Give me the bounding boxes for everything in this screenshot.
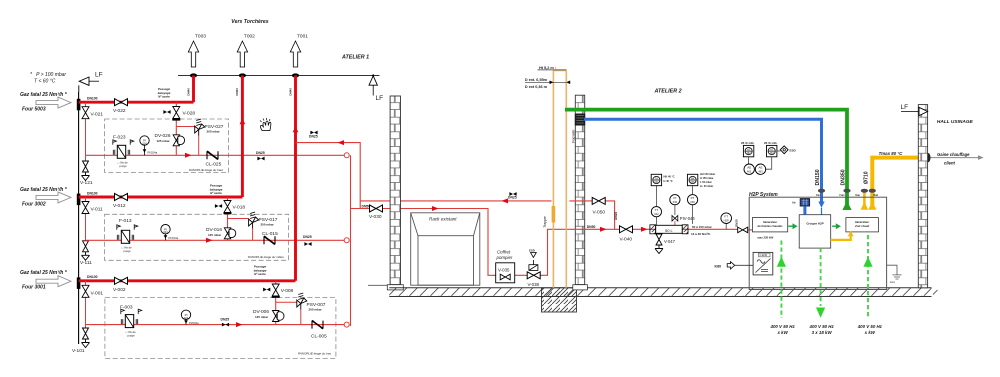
valve V-018 bbox=[224, 201, 231, 213]
svg-text:PANOPLIE étage du milieu: PANOPLIE étage du milieu bbox=[248, 255, 284, 259]
svg-text:T003: T003 bbox=[195, 34, 206, 40]
svg-text:Eau: Eau bbox=[856, 194, 861, 197]
svg-text:463: 463 bbox=[770, 152, 775, 155]
svg-text:PI/024a: PI/024a bbox=[148, 151, 158, 155]
yellow hot air pipe bbox=[872, 158, 926, 206]
svg-text:Four 3002: Four 3002 bbox=[22, 202, 46, 208]
svg-text:client: client bbox=[944, 161, 956, 166]
svg-text:TA: TA bbox=[655, 176, 658, 180]
panoply box etage du milieu bbox=[105, 214, 289, 260]
wire PSV branch row3 bbox=[276, 302, 301, 324]
svg-text:Four 5003: Four 5003 bbox=[22, 107, 46, 113]
svg-text:AE: AE bbox=[758, 166, 762, 170]
power line gen air chaud bbox=[867, 235, 869, 318]
svg-text:400 V 50 Hz: 400 V 50 Hz bbox=[857, 324, 883, 329]
instrument square TAH-041 bbox=[651, 174, 661, 185]
valve V-008 bbox=[272, 284, 279, 296]
svg-text:purge: purge bbox=[120, 164, 128, 168]
svg-text:ESD: ESD bbox=[790, 149, 797, 153]
blue pipe DN150 bbox=[584, 119, 822, 201]
svg-text:V-021: V-021 bbox=[91, 112, 104, 118]
arrow gen to groupe bbox=[788, 225, 793, 227]
gauge PI-024 bbox=[140, 136, 149, 146]
earth connection bbox=[887, 265, 897, 275]
instrument square PAH-046 bbox=[687, 174, 697, 185]
svg-text:Tmax 80 °C: Tmax 80 °C bbox=[879, 151, 904, 156]
relief valve PSV-007 bbox=[297, 293, 307, 310]
generateur air chaud box bbox=[846, 218, 879, 232]
wall damper block bbox=[575, 114, 585, 126]
svg-text:ESD: ESD bbox=[529, 249, 535, 253]
svg-text:Gaz fatal 25 Nm³/h *: Gaz fatal 25 Nm³/h * bbox=[20, 270, 68, 276]
svg-text:462: 462 bbox=[747, 169, 752, 173]
svg-text:V-001: V-001 bbox=[91, 290, 104, 296]
wall crossing tick row 01 bbox=[77, 277, 81, 289]
svg-text:LF: LF bbox=[95, 72, 103, 79]
power line gen fumees bbox=[780, 241, 782, 319]
svg-text:N² azote: N² azote bbox=[210, 191, 222, 195]
svg-text:x kW: x kW bbox=[776, 330, 788, 335]
panoply box etage du bas bbox=[105, 298, 336, 359]
svg-text:Air: Air bbox=[792, 201, 796, 205]
svg-text:400 V 50 Hz: 400 V 50 Hz bbox=[770, 324, 796, 329]
riser junction tick T002 bbox=[239, 73, 246, 77]
wall column hall usinage bbox=[918, 105, 927, 288]
svg-text:V-002: V-002 bbox=[113, 287, 126, 293]
generateur fumees box bbox=[752, 218, 787, 232]
gauge PI-014 bbox=[161, 225, 170, 235]
facade outline orange bbox=[553, 71, 566, 288]
svg-text:DN25: DN25 bbox=[614, 212, 618, 220]
valve debit H2P inlet bbox=[738, 227, 748, 233]
branch stub + valve V-021 bbox=[85, 102, 87, 166]
riser pipe to T001 bbox=[294, 76, 297, 281]
panoply box etage du haut bbox=[105, 119, 229, 173]
valve V-030 bbox=[370, 205, 383, 212]
relief valve PSV-017 bbox=[249, 212, 259, 229]
arrow groupe to gen air bbox=[832, 225, 836, 227]
svg-text:125 mbar: 125 mbar bbox=[208, 233, 222, 237]
svg-text:CL-015: CL-015 bbox=[262, 231, 278, 237]
valve V-050 bbox=[592, 197, 605, 204]
svg-text:Trappe: Trappe bbox=[543, 216, 547, 228]
svg-text:DN40: DN40 bbox=[235, 88, 239, 96]
svg-text:13 à 36 Nm³/h: 13 à 36 Nm³/h bbox=[691, 232, 711, 236]
svg-text:pompier: pompier bbox=[496, 255, 513, 260]
svg-text:DN40: DN40 bbox=[186, 88, 190, 96]
svg-text:DN25: DN25 bbox=[221, 318, 230, 322]
svg-text:DN25: DN25 bbox=[256, 151, 265, 155]
svg-text:V-040: V-040 bbox=[620, 237, 633, 243]
svg-text:200 mbar: 200 mbar bbox=[309, 308, 323, 312]
svg-text:DN100: DN100 bbox=[87, 97, 98, 101]
svg-text:Générateur: Générateur bbox=[763, 220, 778, 224]
svg-text:N² azote: N² azote bbox=[158, 95, 170, 99]
atelier1 floor line bbox=[368, 284, 390, 286]
svg-text:PANOPLIE étage du bas: PANOPLIE étage du bas bbox=[298, 352, 331, 356]
wire DV branch row1 bbox=[175, 102, 177, 155]
svg-text:046: 046 bbox=[691, 181, 696, 184]
svg-text:Rad: Rad bbox=[874, 194, 879, 197]
wire DV branch row3 bbox=[275, 281, 277, 325]
svg-text:ATELIER 1: ATELIER 1 bbox=[341, 55, 369, 61]
svg-text:PA: PA bbox=[691, 176, 695, 180]
H2P system box bbox=[749, 197, 886, 289]
svg-text:PANOPLIE étage du haut: PANOPLIE étage du haut bbox=[189, 168, 223, 172]
svg-text:041: 041 bbox=[654, 181, 659, 184]
svg-text:DN100: DN100 bbox=[87, 191, 98, 195]
svg-text:V-101: V-101 bbox=[72, 348, 85, 354]
main header pipe Four 5003 bbox=[79, 101, 194, 104]
gauge PI-004 bbox=[181, 310, 190, 320]
riser pipe to T003 bbox=[192, 76, 195, 103]
ESD diamond bbox=[777, 150, 781, 152]
node junction row3 bbox=[344, 322, 349, 327]
svg-text:F-023: F-023 bbox=[113, 135, 126, 141]
svg-text:max 250 kW: max 250 kW bbox=[757, 236, 773, 240]
wire PSV branch row2 bbox=[228, 219, 253, 241]
svg-text:DN350: DN350 bbox=[841, 169, 847, 185]
svg-text:D ext 0,36 m: D ext 0,36 m bbox=[525, 85, 548, 89]
svg-text:AT: AT bbox=[770, 147, 774, 151]
svg-text:V-011: V-011 bbox=[91, 207, 104, 213]
svg-text:Générateur: Générateur bbox=[855, 220, 870, 224]
instrument PT-046 bbox=[692, 186, 694, 224]
svg-text:V-035: V-035 bbox=[498, 268, 510, 273]
svg-text:V-012: V-012 bbox=[113, 203, 126, 209]
yellow link groupe to gen air bbox=[831, 236, 851, 240]
foundation block under facade bbox=[542, 297, 577, 313]
wall crossing tick row 11 bbox=[77, 194, 81, 206]
wire collector vertical bbox=[350, 155, 352, 326]
svg-text:DN50: DN50 bbox=[587, 225, 596, 229]
svg-text:Ht 5,2 m ↕: Ht 5,2 m ↕ bbox=[539, 66, 557, 70]
svg-text:* P > 100 mbar: * P > 100 mbar bbox=[30, 72, 66, 78]
svg-text:3 x 18 kW: 3 x 18 kW bbox=[812, 330, 833, 335]
valve V-028 bbox=[173, 107, 180, 119]
wire DV branch row2 bbox=[227, 197, 229, 240]
svg-text:de fumées chaudes: de fumées chaudes bbox=[758, 224, 783, 228]
svg-text:DN25: DN25 bbox=[508, 196, 517, 200]
svg-text:125 mbar: 125 mbar bbox=[255, 315, 269, 319]
vent valve V-121 with funnel bbox=[82, 161, 90, 181]
svg-text:462: 462 bbox=[747, 152, 752, 155]
svg-text:LL 30 mbar: LL 30 mbar bbox=[700, 185, 713, 188]
svg-text:50 à 150 mbar: 50 à 150 mbar bbox=[692, 225, 713, 229]
check valve CL-005 bbox=[312, 321, 323, 329]
check valve CL-025 bbox=[207, 151, 218, 159]
LF flag on supply header top bbox=[79, 72, 103, 93]
LF flag hall usinage bbox=[901, 104, 928, 116]
svg-text:terre: terre bbox=[890, 281, 896, 284]
node junction row1 bbox=[344, 153, 349, 158]
wire sweep line DN25 upper bbox=[296, 143, 552, 209]
svg-text:200 mbar: 200 mbar bbox=[207, 130, 221, 134]
svg-text:K80: K80 bbox=[715, 265, 722, 269]
svg-text:HH 150 mbar: HH 150 mbar bbox=[700, 173, 715, 176]
svg-text:400 V 50 Hz: 400 V 50 Hz bbox=[809, 324, 835, 329]
svg-text:Four 3001: Four 3001 bbox=[22, 285, 46, 291]
svg-text:CL-025: CL-025 bbox=[206, 162, 222, 168]
svg-text:TT: TT bbox=[655, 208, 659, 212]
svg-text:PI: PI bbox=[673, 196, 676, 200]
instrument FT-H2P bbox=[725, 223, 727, 229]
rack existant bbox=[411, 213, 480, 285]
svg-text:PT: PT bbox=[691, 196, 695, 200]
vent valve V-111 with funnel bbox=[82, 241, 90, 260]
branch stub + valve V-011 bbox=[85, 197, 87, 246]
green exhaust pipe DN350 bbox=[565, 110, 847, 206]
svg-text:AE: AE bbox=[747, 166, 751, 170]
svg-text:T001: T001 bbox=[297, 34, 308, 40]
svg-text:CL-005: CL-005 bbox=[311, 334, 327, 340]
svg-text:V-018: V-018 bbox=[233, 205, 246, 211]
power line groupe H2P output bbox=[820, 248, 822, 306]
hand symbol manual action bbox=[260, 118, 271, 131]
feed arrow Four 3001 bbox=[36, 276, 71, 287]
svg-text:Vers Torchères: Vers Torchères bbox=[231, 19, 269, 25]
wire burner feed DN50 bbox=[569, 228, 752, 231]
air intake filter box bbox=[800, 199, 810, 207]
svg-text:H 40 °C: H 40 °C bbox=[664, 179, 673, 183]
valve V-040 bbox=[620, 226, 633, 233]
svg-text:C-ENR: C-ENR bbox=[760, 254, 768, 257]
svg-text:HALL USINAGE: HALL USINAGE bbox=[937, 119, 974, 125]
svg-text:N² azote: N² azote bbox=[254, 272, 266, 276]
svg-text:DN25: DN25 bbox=[734, 219, 738, 227]
gas supply vertical line bbox=[78, 92, 80, 344]
svg-text:V-121: V-121 bbox=[80, 180, 93, 186]
gaine chauffage arrow bbox=[931, 157, 979, 159]
instrument PI-045 bbox=[674, 205, 676, 215]
svg-text:Façade: Façade bbox=[571, 129, 576, 143]
wall column atelier2 left bbox=[575, 95, 584, 285]
svg-text:HH 40 °C: HH 40 °C bbox=[664, 175, 675, 179]
svg-text:F-013: F-013 bbox=[119, 218, 132, 224]
torch arrow T003 bbox=[188, 41, 198, 67]
flare header line bbox=[178, 75, 380, 77]
groupe H2P box bbox=[799, 215, 831, 248]
svg-text:DN50: DN50 bbox=[362, 204, 371, 208]
wire panoply line row3 bbox=[86, 324, 345, 326]
svg-text:PI/014a: PI/014a bbox=[169, 236, 179, 240]
svg-text:LF: LF bbox=[901, 104, 909, 111]
svg-text:V-111: V-111 bbox=[80, 260, 92, 266]
svg-text:x kW: x kW bbox=[864, 330, 876, 335]
svg-text:DN150: DN150 bbox=[815, 169, 821, 185]
valve V-022 bbox=[115, 99, 128, 106]
svg-text:042: 042 bbox=[654, 212, 659, 216]
vent valve V-047 bbox=[658, 234, 660, 235]
inline mixer 50L bbox=[650, 225, 688, 234]
svg-text:purge: purge bbox=[128, 333, 136, 337]
svg-text:FT: FT bbox=[724, 215, 728, 219]
svg-text:PIV-044: PIV-044 bbox=[680, 216, 696, 221]
feed arrow Four 3002 bbox=[36, 192, 71, 203]
branch stub + valve V-001 bbox=[85, 281, 87, 334]
svg-text:V-050: V-050 bbox=[593, 210, 606, 216]
vent valve V-101 with funnel bbox=[82, 328, 90, 348]
LF flag at header end bbox=[369, 74, 383, 102]
svg-text:046: 046 bbox=[690, 200, 695, 204]
svg-text:H2P System: H2P System bbox=[749, 192, 778, 198]
wall crossing tick row 21 bbox=[77, 99, 81, 111]
svg-text:26 % LEL: 26 % LEL bbox=[741, 141, 755, 145]
svg-text:H2P: H2P bbox=[724, 218, 729, 222]
svg-text:Gaz fatal 25 Nm³/h *: Gaz fatal 25 Nm³/h * bbox=[20, 92, 68, 98]
svg-text:AT: AT bbox=[747, 147, 751, 151]
wire PSV branch row1 bbox=[176, 127, 198, 156]
svg-text:463: 463 bbox=[758, 169, 763, 173]
svg-text:V-022: V-022 bbox=[113, 108, 126, 114]
svg-text:T < 60 °C: T < 60 °C bbox=[34, 79, 56, 85]
svg-text:DN40: DN40 bbox=[288, 88, 292, 96]
svg-text:H 150 mbar: H 150 mbar bbox=[700, 177, 714, 180]
svg-text:DN100: DN100 bbox=[87, 275, 98, 279]
feed arrow Four 5003 bbox=[36, 97, 71, 108]
svg-text:purge: purge bbox=[124, 249, 132, 253]
check valve CL-015 bbox=[264, 236, 275, 244]
svg-text:Fum: Fum bbox=[840, 194, 845, 197]
trappe marker bbox=[552, 206, 556, 223]
valve PIV-044 bbox=[672, 216, 678, 230]
wall sleeve oval bbox=[926, 153, 931, 162]
svg-text:Groupe H2P: Groupe H2P bbox=[806, 222, 823, 226]
torch arrow T001 bbox=[290, 41, 300, 67]
svg-text:V-008: V-008 bbox=[281, 288, 294, 294]
svg-text:26 % LEL: 26 % LEL bbox=[764, 141, 778, 145]
svg-text:Rack existant: Rack existant bbox=[429, 217, 457, 222]
wall column atelier1 right bbox=[390, 96, 400, 285]
svg-text:DN25: DN25 bbox=[309, 135, 318, 139]
svg-text:L 50 mbar: L 50 mbar bbox=[700, 181, 712, 184]
svg-text:ATELIER 2: ATELIER 2 bbox=[654, 89, 682, 95]
svg-text:Gaz fatal 25 Nm³/h *: Gaz fatal 25 Nm³/h * bbox=[20, 187, 68, 193]
ground hatch band bbox=[389, 288, 937, 297]
svg-text:Ø710: Ø710 bbox=[864, 171, 870, 184]
torch arrow T002 bbox=[237, 41, 247, 67]
wire panoply line row2 bbox=[86, 239, 345, 241]
svg-text:Coffret: Coffret bbox=[497, 250, 511, 255]
svg-text:LF: LF bbox=[376, 95, 384, 102]
main header pipe Four 3002 bbox=[79, 196, 243, 199]
relief valve PSV-027 bbox=[195, 119, 205, 136]
svg-text:V-047: V-047 bbox=[664, 239, 676, 244]
svg-text:PI/004a: PI/004a bbox=[189, 321, 199, 325]
svg-text:D ext. 6,55m: D ext. 6,55m bbox=[525, 78, 548, 82]
instrument TT-042 bbox=[655, 186, 657, 230]
svg-text:DN25: DN25 bbox=[303, 235, 312, 239]
svg-text:T002: T002 bbox=[244, 34, 255, 40]
riser pipe to T002 bbox=[241, 76, 244, 198]
convertisseur box bbox=[753, 252, 773, 275]
riser junction tick T003 bbox=[190, 73, 197, 77]
svg-text:045: 045 bbox=[673, 200, 678, 204]
coffret pompier box bbox=[496, 263, 515, 283]
svg-text:250 mbar: 250 mbar bbox=[261, 223, 275, 227]
node junction row2 bbox=[344, 238, 349, 243]
main header pipe Four 3001 bbox=[79, 279, 296, 282]
svg-text:V-028: V-028 bbox=[183, 111, 196, 117]
svg-text:d’air chaud: d’air chaud bbox=[855, 224, 870, 228]
svg-text:V-030: V-030 bbox=[369, 214, 382, 220]
valve V-038 ESD bbox=[527, 249, 540, 288]
svg-text:125 mbar: 125 mbar bbox=[157, 139, 171, 143]
svg-text:Gaine chauffage: Gaine chauffage bbox=[937, 152, 970, 157]
riser junction tick T001 bbox=[292, 73, 299, 77]
wire panoply line row1 bbox=[86, 154, 345, 156]
wire DN50 to coffret bbox=[351, 209, 570, 276]
wire sweep line right of wall bbox=[569, 201, 614, 229]
svg-text:V-038: V-038 bbox=[528, 282, 540, 287]
valve V-012 bbox=[115, 194, 128, 201]
svg-text:Cle: Cle bbox=[816, 194, 820, 197]
valve V-002 bbox=[115, 277, 128, 284]
svg-text:50 L: 50 L bbox=[665, 228, 674, 233]
